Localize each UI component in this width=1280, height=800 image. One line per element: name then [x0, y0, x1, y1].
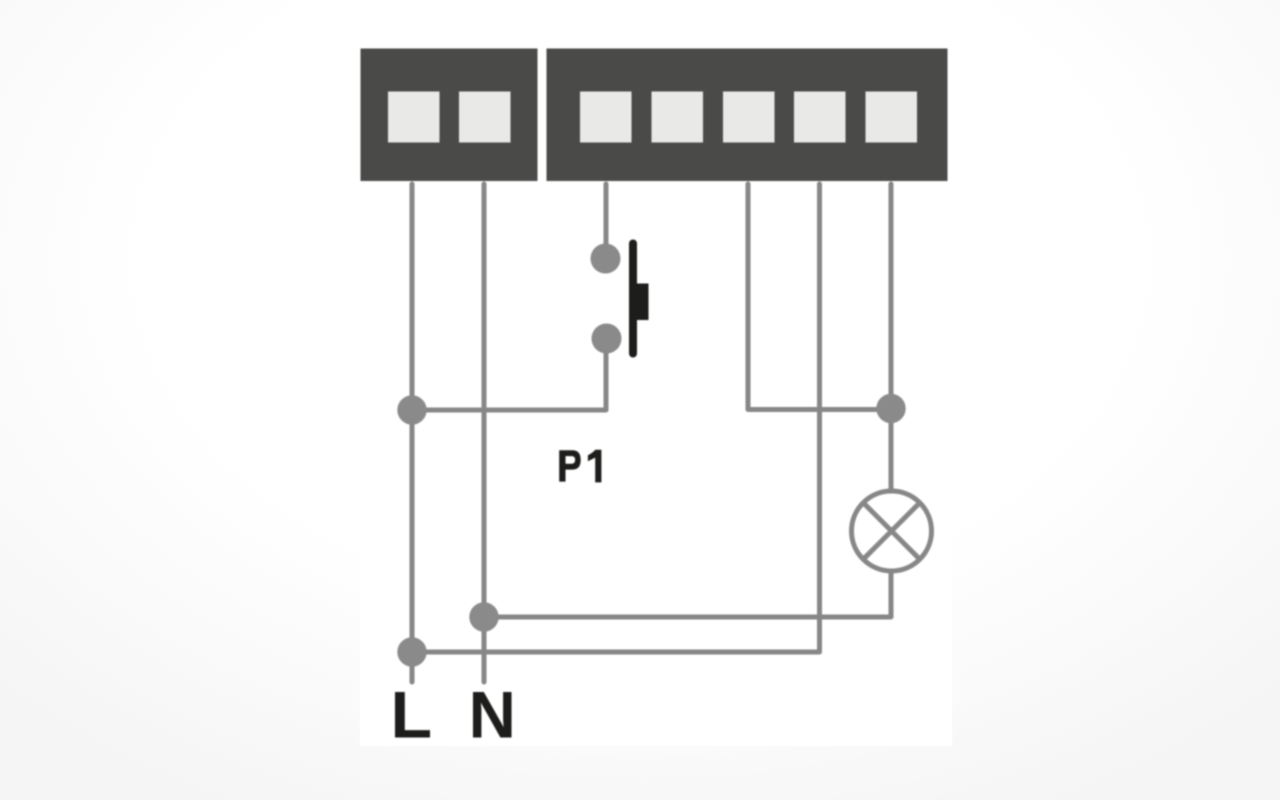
pushbutton P1 bottom contact: [592, 324, 622, 354]
junction node on lamp wire: [876, 394, 905, 423]
label P1 letter P: [559, 450, 581, 481]
lamp E1 circle: [852, 491, 932, 571]
pushbutton P1 actuator bar: [629, 240, 637, 358]
junction node on L bottom: [397, 637, 426, 666]
junction node on N: [469, 602, 498, 631]
label N: [473, 692, 512, 738]
terminal block right: [547, 49, 948, 182]
wire terminal5 to lamp top: [889, 184, 894, 490]
pushbutton P1 plunger: [633, 284, 649, 321]
wire lamp bottom to N node: [484, 572, 891, 617]
wire P1 bottom lead to L node: [412, 350, 606, 410]
pushbutton P1 top contact: [591, 244, 621, 274]
wire N vertical: [482, 184, 487, 682]
wire P1 top lead: [604, 184, 609, 246]
terminal block left: [361, 49, 538, 182]
lamp E1 cross: [863, 503, 920, 560]
label P1 digit 1: [588, 450, 602, 483]
wire L vertical: [410, 184, 415, 682]
white diagram background: [360, 0, 952, 746]
junction node on L at P1 branch: [397, 395, 426, 424]
label L: [395, 692, 430, 738]
wire terminal3 to lamp node: [748, 184, 891, 410]
wire terminal4 down to L bottom node: [412, 184, 820, 652]
